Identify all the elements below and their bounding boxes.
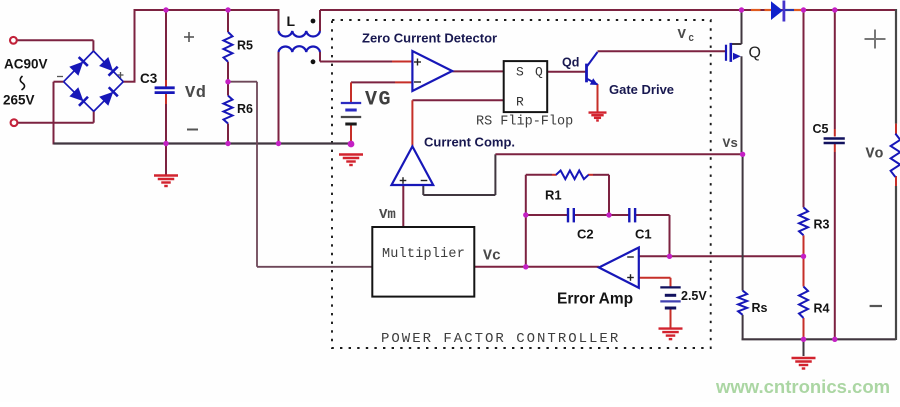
svg-text:Error Amp: Error Amp bbox=[557, 291, 633, 308]
svg-text:C5: C5 bbox=[813, 122, 829, 136]
svg-text:V: V bbox=[678, 27, 687, 43]
svg-text:Q: Q bbox=[535, 65, 543, 80]
svg-text:www.cntronics.com: www.cntronics.com bbox=[715, 376, 890, 397]
svg-text:R5: R5 bbox=[237, 39, 253, 53]
svg-text:265V: 265V bbox=[3, 93, 35, 108]
svg-text:VG: VG bbox=[365, 89, 392, 112]
svg-text:R3: R3 bbox=[814, 218, 830, 232]
svg-text:Vo: Vo bbox=[866, 146, 884, 163]
svg-text:Vm: Vm bbox=[379, 207, 396, 223]
svg-text:Current Comp.: Current Comp. bbox=[424, 135, 515, 150]
svg-text:C1: C1 bbox=[635, 227, 652, 242]
svg-text:2.5V: 2.5V bbox=[681, 289, 707, 303]
svg-text:Zero Current Detector: Zero Current Detector bbox=[362, 31, 497, 46]
svg-text:R: R bbox=[516, 95, 524, 110]
svg-text:R1: R1 bbox=[545, 188, 562, 203]
svg-text:Q: Q bbox=[749, 45, 761, 62]
svg-text:Vc: Vc bbox=[483, 248, 501, 265]
svg-text:RS Flip-Flop: RS Flip-Flop bbox=[476, 115, 573, 130]
svg-text:Qd: Qd bbox=[562, 56, 579, 70]
svg-text:Gate Drive: Gate Drive bbox=[609, 82, 674, 97]
svg-text:POWER FACTOR CONTROLLER: POWER FACTOR CONTROLLER bbox=[381, 331, 620, 347]
svg-text:C: C bbox=[689, 34, 695, 44]
svg-text:C3: C3 bbox=[140, 71, 158, 86]
svg-text:R4: R4 bbox=[814, 302, 830, 316]
svg-text:Multiplier: Multiplier bbox=[382, 247, 465, 262]
svg-text:Vs: Vs bbox=[723, 136, 739, 151]
svg-text:AC90V: AC90V bbox=[4, 57, 48, 72]
svg-text:Vd: Vd bbox=[185, 84, 206, 103]
svg-text:R6: R6 bbox=[237, 102, 253, 116]
svg-text:C2: C2 bbox=[577, 227, 594, 242]
svg-text:L: L bbox=[287, 13, 296, 29]
svg-text:S: S bbox=[516, 65, 524, 80]
svg-text:Rs: Rs bbox=[752, 301, 768, 315]
